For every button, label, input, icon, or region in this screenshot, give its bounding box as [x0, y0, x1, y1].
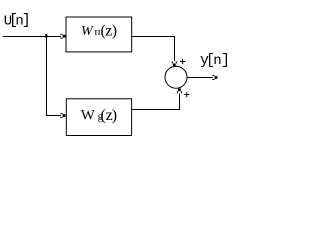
svg-text:U[n]: U[n]: [4, 12, 31, 30]
svg-text:y[n]: y[n]: [200, 52, 230, 69]
